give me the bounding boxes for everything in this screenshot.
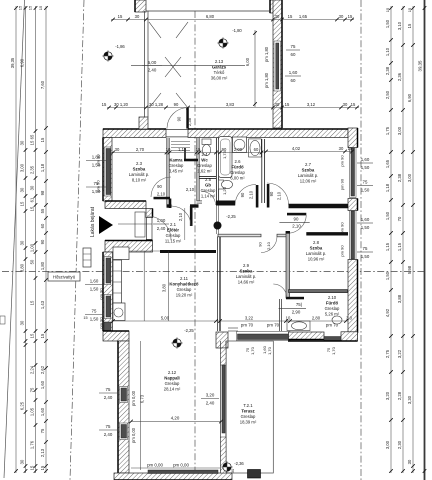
svg-text:98: 98 xyxy=(40,190,45,195)
kamra shelves xyxy=(171,141,190,143)
svg-text:Gb: Gb xyxy=(205,183,211,188)
door 2.8 leaf xyxy=(287,213,306,216)
svg-text:-1,86: -1,86 xyxy=(115,44,125,49)
svg-text:-2,25: -2,25 xyxy=(184,328,194,333)
terrace door gap xyxy=(228,327,238,329)
svg-text:30: 30 xyxy=(20,187,25,192)
svg-text:T.2.1: T.2.1 xyxy=(243,403,253,408)
door arc room 2.3 xyxy=(151,177,171,197)
svg-text:15: 15 xyxy=(18,5,23,10)
garage X center xyxy=(165,57,181,77)
wall wc-gb divider xyxy=(199,175,216,177)
axis dash-dot left boundary xyxy=(70,0,84,480)
living-terrace window wall xyxy=(220,341,222,473)
svg-text:Szoba: Szoba xyxy=(240,269,253,274)
svg-text:15: 15 xyxy=(83,316,87,320)
svg-text:15: 15 xyxy=(38,5,43,10)
wall garage stub right xyxy=(270,0,281,13)
svg-text:2,40: 2,40 xyxy=(206,401,215,406)
svg-text:15: 15 xyxy=(30,140,35,145)
svg-text:3,30: 3,30 xyxy=(407,395,412,404)
svg-text:Hőszivattyú: Hőszivattyú xyxy=(53,275,76,280)
wall wing bottom mid xyxy=(289,332,325,340)
svg-text:3,45 m²: 3,45 m² xyxy=(169,168,184,173)
svg-text:Laminált p.: Laminált p. xyxy=(129,172,149,177)
kitchen fridge xyxy=(113,247,129,260)
wall room23 bottom B xyxy=(190,204,199,207)
svg-text:pm 90: pm 90 xyxy=(99,288,104,300)
window S1 glazing xyxy=(238,334,290,340)
wc toilet xyxy=(202,139,211,145)
door 2.10 leaf xyxy=(286,297,304,300)
svg-text:30: 30 xyxy=(20,140,25,145)
svg-text:30 1,20: 30 1,20 xyxy=(114,102,129,107)
axis dash-dot right xyxy=(360,0,362,480)
svg-text:90: 90 xyxy=(269,191,274,196)
svg-text:30: 30 xyxy=(20,240,25,245)
svg-text:4,20: 4,20 xyxy=(171,416,180,421)
wall block right xyxy=(215,138,217,203)
terrace step xyxy=(248,470,261,479)
svg-text:15: 15 xyxy=(285,102,290,107)
svg-text:2,00: 2,00 xyxy=(234,147,243,152)
wall top-right run xyxy=(188,129,348,138)
window W3 frame xyxy=(104,295,111,319)
svg-text:pm 0,00: pm 0,00 xyxy=(131,427,136,443)
svg-text:1,50: 1,50 xyxy=(90,317,99,322)
svg-text:2.12: 2.12 xyxy=(168,370,177,375)
wall 2.7 south xyxy=(289,204,349,208)
svg-text:Szoba: Szoba xyxy=(310,246,323,251)
svg-text:6,00 m²: 6,00 m² xyxy=(230,175,245,180)
kitchen sink box xyxy=(113,303,125,321)
svg-text:30: 30 xyxy=(135,14,140,19)
svg-text:2,10: 2,10 xyxy=(157,192,166,197)
wall 29 left xyxy=(217,237,219,332)
svg-text:pm 90: pm 90 xyxy=(340,245,345,257)
svg-text:30 1,28: 30 1,28 xyxy=(149,102,164,107)
svg-text:Fürdő: Fürdő xyxy=(231,165,244,170)
door 2.6 leaf xyxy=(256,185,259,208)
wall right top xyxy=(348,128,358,148)
wall 2.3 right xyxy=(166,138,168,206)
svg-text:1,60: 1,60 xyxy=(40,407,45,416)
wall top-left run xyxy=(103,129,166,138)
svg-text:1,50: 1,50 xyxy=(90,287,99,292)
svg-text:1,50: 1,50 xyxy=(361,165,370,170)
svg-text:pm 70: pm 70 xyxy=(241,323,254,328)
svg-text:90: 90 xyxy=(177,116,182,121)
svg-text:1,18: 1,18 xyxy=(385,183,390,192)
svg-text:6,90: 6,90 xyxy=(20,58,25,67)
window W3 glazing xyxy=(106,296,110,317)
window E1 glazing xyxy=(351,148,355,196)
svg-text:2,10: 2,10 xyxy=(178,212,183,221)
svg-text:14,66 m²: 14,66 m² xyxy=(238,279,255,284)
wall right corner xyxy=(348,333,358,341)
dim line y321 xyxy=(111,320,348,322)
wall 29 top xyxy=(218,234,261,237)
door arc entry xyxy=(147,216,171,240)
level symbol entry xyxy=(104,52,112,60)
svg-text:1,15: 1,15 xyxy=(397,242,402,251)
svg-text:2,75: 2,75 xyxy=(385,349,390,358)
svg-text:90: 90 xyxy=(40,239,45,244)
living vdim 6,73 xyxy=(140,341,142,470)
garage mark tr xyxy=(176,22,188,38)
svg-text:30: 30 xyxy=(30,185,35,190)
svg-text:15: 15 xyxy=(348,146,353,151)
svg-text:2,10: 2,10 xyxy=(292,223,301,228)
door 2.7 leaf xyxy=(267,184,270,208)
svg-text:3,20: 3,20 xyxy=(385,391,390,400)
svg-text:2,62: 2,62 xyxy=(40,365,45,374)
svg-text:3,00: 3,00 xyxy=(407,173,412,182)
svg-text:6,00: 6,00 xyxy=(245,57,250,66)
svg-text:2,36: 2,36 xyxy=(397,72,402,81)
toilet 2.6 xyxy=(219,180,224,189)
svg-text:1,80: 1,80 xyxy=(40,261,45,270)
living terrace wall top block xyxy=(221,348,227,365)
svg-text:19,20 m²: 19,20 m² xyxy=(176,292,193,297)
svg-text:pm 90: pm 90 xyxy=(96,180,101,192)
window W2 frame xyxy=(104,257,111,285)
svg-text:2,30: 2,30 xyxy=(397,440,402,449)
svg-text:15: 15 xyxy=(348,14,353,19)
svg-text:pm 90: pm 90 xyxy=(99,317,104,329)
svg-text:2.3: 2.3 xyxy=(136,161,143,166)
left chain 1 (39,35) xyxy=(15,6,17,473)
entry door leaf xyxy=(135,212,145,237)
left chain 2 xyxy=(25,6,27,473)
living terrace glazing xyxy=(222,365,225,433)
svg-text:3,10: 3,10 xyxy=(397,21,402,30)
right heavy chain (39,35) xyxy=(424,0,426,480)
svg-text:60: 60 xyxy=(291,78,296,83)
axis dash-dot horizontal xyxy=(2,271,426,273)
vanity 2.10 xyxy=(287,321,310,331)
svg-text:pm 0,00: pm 0,00 xyxy=(147,463,163,468)
wall wc vertical xyxy=(196,138,198,201)
svg-text:Laminált p.: Laminált p. xyxy=(236,274,256,279)
svg-text:pm 1,80: pm 1,80 xyxy=(264,72,269,88)
window garage glazing xyxy=(276,43,279,89)
svg-text:75): 75) xyxy=(296,302,303,307)
svg-text:Greslap: Greslap xyxy=(201,188,216,193)
svg-text:3,20: 3,20 xyxy=(206,393,215,398)
svg-text:2,28: 2,28 xyxy=(397,391,402,400)
wall garage left thin xyxy=(144,11,146,117)
kitchen floor line xyxy=(113,250,160,252)
svg-text:15: 15 xyxy=(40,465,45,470)
terrace outline xyxy=(226,341,273,473)
wall 26-27 divider xyxy=(261,139,263,203)
svg-text:1,62 m²: 1,62 m² xyxy=(197,168,212,173)
svg-text:15: 15 xyxy=(118,14,123,19)
sink 2.6 xyxy=(249,139,262,157)
svg-text:55: 55 xyxy=(40,208,45,213)
garage mark bl xyxy=(149,93,161,108)
wall garage pillar xyxy=(139,117,148,129)
svg-text:90: 90 xyxy=(157,184,162,189)
level symbol living xyxy=(173,339,181,347)
svg-text:90: 90 xyxy=(240,192,245,197)
svg-text:15: 15 xyxy=(40,137,45,142)
heat pump unit xyxy=(83,248,91,267)
svg-text:1,18: 1,18 xyxy=(40,163,45,172)
svg-text:1,14 m²: 1,14 m² xyxy=(201,193,216,198)
svg-text:6,25: 6,25 xyxy=(20,401,25,410)
svg-text:15: 15 xyxy=(20,201,25,206)
svg-text:2.6: 2.6 xyxy=(235,159,242,164)
svg-text:2.1: 2.1 xyxy=(170,222,177,227)
svg-text:30: 30 xyxy=(20,320,25,325)
svg-text:Terasz: Terasz xyxy=(241,409,254,414)
svg-text:pm 70: pm 70 xyxy=(267,323,280,328)
svg-text:1,10: 1,10 xyxy=(385,47,390,56)
svg-text:2,35: 2,35 xyxy=(30,165,35,174)
svg-text:Wc: Wc xyxy=(201,158,208,163)
svg-text:Térkő: Térkő xyxy=(214,70,225,75)
svg-text:2,10: 2,10 xyxy=(249,190,254,199)
svg-text:15: 15 xyxy=(407,23,412,28)
right chain B xyxy=(402,6,404,473)
svg-text:28,14 m²: 28,14 m² xyxy=(164,386,181,391)
svg-text:pm 90: pm 90 xyxy=(340,222,345,234)
heat pump label box xyxy=(48,272,80,281)
svg-text:3,0: 3,0 xyxy=(346,316,352,321)
window terrace door glazing xyxy=(148,470,218,474)
svg-text:4,92: 4,92 xyxy=(385,308,390,317)
living hdim 4,20 xyxy=(131,421,221,423)
wall left mid xyxy=(103,252,113,331)
svg-text:1,76: 1,76 xyxy=(30,440,35,449)
washer 2.6 xyxy=(233,137,247,153)
door arc bath210 xyxy=(273,284,286,297)
svg-text:Greslap: Greslap xyxy=(169,163,184,168)
wall gb bottom xyxy=(197,200,203,202)
wall wing bottom corner R xyxy=(341,332,358,341)
svg-text:30: 30 xyxy=(275,102,280,107)
svg-text:15: 15 xyxy=(102,102,107,107)
svg-text:50: 50 xyxy=(30,259,35,264)
svg-text:2,50: 2,50 xyxy=(385,90,390,99)
svg-text:5,00: 5,00 xyxy=(148,60,157,65)
svg-text:3,83: 3,83 xyxy=(226,102,235,107)
svg-text:39,35: 39,35 xyxy=(418,60,423,72)
svg-text:30: 30 xyxy=(275,14,280,19)
svg-text:2,13: 2,13 xyxy=(40,448,45,457)
interior dim y152 xyxy=(111,152,264,154)
svg-text:1,70: 1,70 xyxy=(250,346,255,355)
svg-text:2.9: 2.9 xyxy=(243,263,250,268)
door arc kamra xyxy=(172,206,192,226)
svg-text:18,39 m²: 18,39 m² xyxy=(240,419,257,424)
svg-text:15: 15 xyxy=(30,206,35,211)
garage door line xyxy=(146,10,270,12)
wall left lower xyxy=(118,341,129,473)
svg-text:10,96 m²: 10,96 m² xyxy=(308,256,325,261)
svg-text:Greslap: Greslap xyxy=(230,170,245,175)
window E1 frame xyxy=(350,148,357,198)
svg-text:Greslap: Greslap xyxy=(325,306,340,311)
wall 28-29 divider xyxy=(286,232,290,299)
svg-text:1,50: 1,50 xyxy=(361,225,370,230)
window W1 frame xyxy=(104,147,111,196)
svg-text:pm 90: pm 90 xyxy=(340,178,345,190)
svg-text:5,26 m²: 5,26 m² xyxy=(325,311,340,316)
svg-text:2.5: 2.5 xyxy=(205,177,212,182)
wall wing bottom corner L xyxy=(216,332,228,348)
wall 28 bottom xyxy=(289,290,348,293)
svg-text:2.7: 2.7 xyxy=(305,162,312,167)
svg-text:3,22: 3,22 xyxy=(397,349,402,358)
svg-text:7,60: 7,60 xyxy=(40,80,45,89)
svg-text:Fürdő: Fürdő xyxy=(326,301,339,306)
svg-text:75: 75 xyxy=(363,180,368,185)
wall right mid1 xyxy=(348,199,358,211)
svg-text:30: 30 xyxy=(407,459,412,464)
window E2 glazing xyxy=(351,211,355,259)
svg-text:1,00: 1,00 xyxy=(30,243,35,252)
svg-text:2,38: 2,38 xyxy=(187,117,192,126)
level symbol garage xyxy=(219,39,227,47)
svg-text:1,60: 1,60 xyxy=(361,217,370,222)
window W2 glazing xyxy=(106,258,110,283)
svg-text:pm 1,80: pm 1,80 xyxy=(264,46,269,62)
svg-text:Greslap: Greslap xyxy=(197,163,212,168)
svg-text:Greslap: Greslap xyxy=(166,233,181,238)
svg-text:1,65: 1,65 xyxy=(299,14,308,19)
svg-text:Szoba: Szoba xyxy=(133,167,146,172)
svg-text:65: 65 xyxy=(30,134,35,139)
svg-text:4,02: 4,02 xyxy=(292,146,301,151)
svg-text:2.10: 2.10 xyxy=(328,295,337,300)
svg-text:30: 30 xyxy=(115,147,120,152)
svg-text:60: 60 xyxy=(291,52,296,57)
svg-text:30: 30 xyxy=(343,102,348,107)
wall right low xyxy=(348,260,358,334)
svg-text:1,50: 1,50 xyxy=(385,211,390,220)
svg-text:15: 15 xyxy=(30,300,35,305)
terrace level symbol xyxy=(223,463,231,471)
parcel boundary line left xyxy=(4,0,25,478)
svg-text:Laminált p.: Laminált p. xyxy=(306,251,326,256)
svg-text:Lakás bejárat: Lakás bejárat xyxy=(90,206,96,237)
window E2 frame xyxy=(350,211,357,260)
svg-text:10: 10 xyxy=(286,316,291,321)
svg-text:1,73: 1,73 xyxy=(222,150,227,159)
garage mark br xyxy=(176,93,188,108)
svg-text:pm 0,00: pm 0,00 xyxy=(131,390,136,406)
wall left upper xyxy=(103,138,112,202)
wall room23 bottom stub xyxy=(167,204,172,207)
svg-text:3,88: 3,88 xyxy=(397,294,402,303)
svg-text:15: 15 xyxy=(30,333,35,338)
wall entry bottom xyxy=(105,241,153,253)
door 2.3 leaf xyxy=(154,197,171,200)
svg-text:Előtér: Előtér xyxy=(167,228,180,233)
svg-text:1,60: 1,60 xyxy=(90,279,99,284)
window S1 frame xyxy=(237,332,291,341)
svg-text:6,80: 6,80 xyxy=(206,14,215,19)
svg-text:1,50: 1,50 xyxy=(385,271,390,280)
living terrace wall bottom block xyxy=(221,437,227,473)
svg-text:15: 15 xyxy=(40,333,45,338)
window W5 glazing xyxy=(121,425,127,439)
svg-text:15: 15 xyxy=(28,5,33,10)
svg-text:60: 60 xyxy=(40,223,45,228)
window W5 frame xyxy=(120,423,128,440)
svg-text:Garázs: Garázs xyxy=(212,65,227,70)
svg-text:1,15: 1,15 xyxy=(385,242,390,251)
svg-text:75: 75 xyxy=(40,428,45,433)
door arc gb xyxy=(202,192,216,206)
left chain 3 xyxy=(35,6,37,473)
door garage-house threshold xyxy=(166,129,188,131)
svg-text:2,90: 2,90 xyxy=(292,309,301,314)
svg-text:2.8: 2.8 xyxy=(313,240,320,245)
svg-text:11,15 m²: 11,15 m² xyxy=(165,238,182,243)
svg-text:2,24: 2,24 xyxy=(30,365,35,374)
svg-text:39,35: 39,35 xyxy=(10,57,15,68)
svg-text:Nappali: Nappali xyxy=(164,376,180,381)
window W4 frame xyxy=(120,387,128,403)
svg-text:36,00 m²: 36,00 m² xyxy=(211,75,228,80)
svg-text:2,40: 2,40 xyxy=(157,226,166,231)
window W4 glazing xyxy=(121,388,127,401)
svg-text:1,50: 1,50 xyxy=(385,19,390,28)
svg-text:1,50: 1,50 xyxy=(361,254,370,259)
svg-text:5,98: 5,98 xyxy=(407,265,412,274)
wall bath210 left xyxy=(278,299,280,331)
svg-text:2,40: 2,40 xyxy=(104,432,113,437)
garage vdim 6,00 xyxy=(254,30,256,107)
svg-text:2,10: 2,10 xyxy=(266,241,271,250)
wall garage right xyxy=(273,0,282,128)
svg-text:15: 15 xyxy=(407,7,412,12)
door arc garage xyxy=(167,108,188,129)
svg-text:90: 90 xyxy=(258,242,263,247)
svg-text:90: 90 xyxy=(174,102,179,107)
svg-text:1,60: 1,60 xyxy=(40,380,45,389)
svg-text:Konyhaétkező: Konyhaétkező xyxy=(169,282,199,287)
entry door jambs xyxy=(146,218,148,241)
svg-text:-2,36: -2,36 xyxy=(234,461,244,466)
svg-text:2.11: 2.11 xyxy=(180,276,189,281)
svg-text:3,80: 3,80 xyxy=(162,283,167,292)
svg-text:8,10 m²: 8,10 m² xyxy=(132,177,147,182)
svg-text:1,60: 1,60 xyxy=(289,70,298,75)
svg-text:10: 10 xyxy=(166,147,171,152)
garage mark tl xyxy=(149,22,161,38)
left chain 4 xyxy=(45,6,47,473)
svg-text:2.13: 2.13 xyxy=(215,59,224,64)
svg-text:3,80: 3,80 xyxy=(20,263,25,272)
top dim line xyxy=(111,19,354,21)
svg-text:2,10: 2,10 xyxy=(277,191,282,200)
wall garage stub left xyxy=(135,0,146,12)
door arc room28 xyxy=(288,215,306,233)
svg-text:75: 75 xyxy=(291,44,296,49)
svg-text:70: 70 xyxy=(397,216,402,221)
svg-text:75: 75 xyxy=(363,246,368,251)
svg-text:3,22: 3,22 xyxy=(245,316,254,321)
svg-text:-1,80: -1,80 xyxy=(232,28,242,33)
svg-text:1,11: 1,11 xyxy=(178,147,187,152)
kitchen counter strip xyxy=(113,260,122,303)
svg-text:2,10: 2,10 xyxy=(186,187,195,192)
